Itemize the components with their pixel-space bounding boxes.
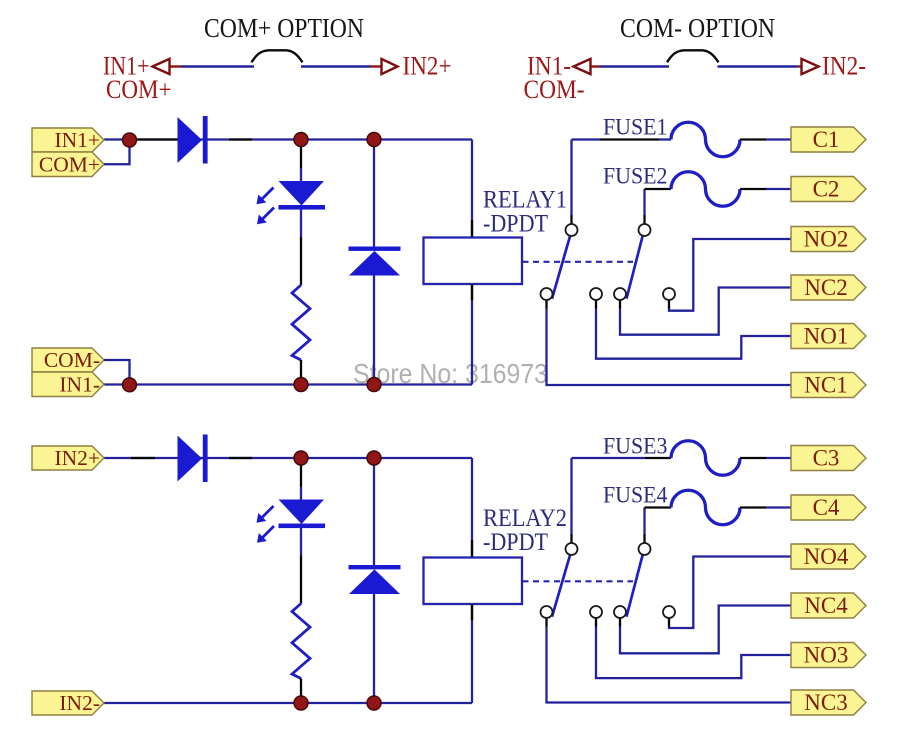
wire relay2 coil top riser: [471, 458, 473, 558]
wire pole2 riser to fuse line (relay1): [643, 189, 645, 215]
arrow to IN2-: [802, 59, 819, 74]
terminal NC1: [791, 373, 866, 398]
svg-text:C2: C2: [813, 176, 840, 201]
contact NC1 circle: [541, 288, 553, 300]
LED1 light arrows: [262, 188, 274, 200]
wire black pole1 pin: [570, 534, 572, 543]
switch pole1 common contact (relay1): [566, 224, 578, 236]
svg-text:NC3: NC3: [804, 690, 847, 715]
svg-text:RELAY2: RELAY2: [483, 505, 567, 532]
terminal NO3: [791, 643, 866, 668]
svg-text:NO4: NO4: [804, 544, 849, 569]
wire black pole2 pin: [643, 534, 645, 543]
wire black net segment after D1 cathode: [229, 138, 252, 140]
node COM-/IN1- junction: [123, 378, 137, 392]
switch arm relay2 pole1: [552, 554, 571, 617]
resistor R1: [292, 285, 310, 360]
wire zener Z1 cathode riser: [373, 146, 375, 247]
svg-text:NC1: NC1: [804, 372, 847, 397]
wire COM- down to IN1- node: [104, 360, 130, 378]
wire com+ option right stub: [370, 65, 382, 67]
svg-text:FUSE1: FUSE1: [603, 115, 668, 140]
wire black relay1 coil top pin: [471, 220, 473, 238]
wire IN2+ input net horizontal: [104, 457, 472, 459]
terminal C2: [791, 177, 866, 202]
wire contact to NC2: [620, 288, 791, 335]
node IN1+/COM+ junction: [123, 133, 137, 147]
LED LED1: [279, 181, 325, 206]
wire black pole1 pin: [570, 215, 572, 224]
contact NC3 circle: [541, 606, 553, 618]
wire black FUSE4 to C4: [740, 506, 766, 508]
wire fuse line FUSE4: [645, 506, 672, 508]
terminal IN1-: [32, 372, 104, 397]
svg-text:FUSE2: FUSE2: [603, 164, 668, 189]
wire black resistor R2 top pin: [300, 556, 302, 604]
wire black resistor R2 bottom pin: [300, 679, 302, 698]
wire contact to NO4: [669, 557, 791, 629]
fuse FUSE4: [671, 490, 740, 525]
contact NC4 circle: [614, 606, 626, 618]
terminal IN1+: [32, 128, 104, 152]
terminal C1: [791, 127, 866, 152]
wire com- option right stub: [798, 65, 803, 67]
node zener Z2 top: [367, 451, 381, 465]
terminal NC4: [791, 593, 866, 618]
switch pole1 common contact (relay2): [566, 543, 578, 555]
terminal C3: [791, 446, 866, 471]
wire com- option right: [718, 65, 798, 67]
svg-text:-DPDT: -DPDT: [483, 529, 548, 556]
resistor R2: [292, 604, 310, 679]
svg-text:IN2+: IN2+: [54, 446, 100, 470]
jumper link com+ option: [252, 50, 303, 62]
wire LED2 anode: [300, 487, 302, 500]
wire ground rail half2: [104, 702, 472, 704]
wire com+ option left: [181, 65, 254, 67]
switch pole2 common contact (relay1): [639, 224, 651, 236]
fuse FUSE2: [671, 172, 740, 207]
wire com- option left: [600, 65, 669, 67]
wire pole1 riser to fuse line (relay1): [570, 140, 572, 216]
fuse FUSE1: [671, 122, 740, 157]
wire black resistor R1 bottom pin: [300, 360, 302, 379]
wire black FUSE2 to C2: [740, 188, 766, 190]
wire black contact pin x=669: [668, 618, 670, 627]
LED2 light arrows: [262, 506, 274, 518]
fuse FUSE3: [671, 441, 740, 476]
wire pole2 riser to fuse line (relay2): [643, 508, 645, 535]
zener diode Z2: [349, 565, 401, 569]
svg-text:COM+ OPTION: COM+ OPTION: [204, 12, 364, 43]
svg-text:IN1-: IN1-: [59, 372, 100, 396]
terminal IN2+: [32, 446, 104, 470]
switch arm relay1 pole1: [552, 235, 571, 299]
relay U1 RELAY1-DPDT coil box: [424, 238, 523, 285]
wire LED1 cathode to resistor: [300, 210, 302, 238]
contact NO2 circle: [663, 288, 675, 300]
terminal NC3: [791, 690, 866, 715]
node zener Z2 bottom: [367, 696, 381, 710]
switch arm relay1 pole2: [627, 235, 644, 299]
wire black contact pin x=596: [595, 300, 597, 309]
svg-text:COM-: COM-: [524, 75, 585, 104]
contact NO3 circle: [590, 606, 602, 618]
wire contact to NC3: [547, 627, 792, 703]
node resistor R2 bottom: [294, 696, 308, 710]
wire black LED1 anode pin: [300, 147, 302, 169]
terminal COM-: [32, 348, 104, 372]
svg-text:RELAY1: RELAY1: [483, 187, 567, 214]
wire LED2 cathode to resistor: [300, 528, 302, 556]
wire black net segment after D2 cathode: [229, 457, 252, 459]
svg-text:FUSE3: FUSE3: [603, 434, 668, 459]
arrow to IN1-: [574, 59, 591, 74]
wire relay2 coil bottom to rail: [471, 604, 473, 703]
wire black relay2 coil bottom pin: [471, 604, 473, 621]
node LED1 branch top: [294, 133, 308, 147]
dashed actuator link relay1: [523, 261, 634, 263]
wire black contact pin x=669: [668, 300, 670, 309]
svg-text:C4: C4: [813, 495, 840, 520]
svg-text:IN2+: IN2+: [403, 52, 452, 81]
node LED2 branch top: [294, 451, 308, 465]
wire zener Z1 anode to rail: [373, 276, 375, 385]
svg-text:IN2-: IN2-: [59, 691, 100, 715]
svg-text:NO1: NO1: [804, 323, 849, 348]
wire black contact pin x=620: [619, 300, 621, 309]
wire black contact pin x=596: [595, 618, 597, 627]
svg-text:NC4: NC4: [804, 593, 848, 618]
wire black pin segment before D2 anode: [131, 457, 155, 459]
contact NO4 circle: [663, 606, 675, 618]
svg-text:NO3: NO3: [804, 642, 849, 667]
wire relay1 coil bottom to rail: [471, 284, 473, 385]
switch pole2 common contact (relay2): [639, 543, 651, 555]
svg-text:IN2-: IN2-: [822, 52, 866, 81]
wire fuse line FUSE3: [572, 457, 646, 459]
jumper link com- option: [667, 50, 719, 62]
wire pole1 riser to fuse line (relay2): [570, 458, 572, 534]
wire fuse line FUSE2: [645, 188, 672, 190]
svg-text:COM+: COM+: [39, 152, 100, 176]
node zener Z1 top: [367, 133, 381, 147]
wire com- option left stub: [591, 65, 601, 67]
wire black relay1 coil bottom pin: [471, 284, 473, 301]
wire com+ option left stub: [170, 65, 182, 67]
terminal NC2: [791, 275, 866, 300]
terminal NO2: [791, 227, 866, 252]
arrow to IN1+: [153, 59, 170, 74]
terminal COM+: [32, 152, 104, 177]
wire fuse line FUSE1: [572, 138, 601, 140]
wire black pin segment dot to D1 anode: [136, 138, 178, 140]
wire black contact pin x=546.5: [545, 618, 547, 627]
diode D1: [178, 117, 203, 163]
wire relay1 coil top riser: [471, 140, 473, 238]
wire contact to NO3: [596, 627, 791, 679]
wire black relay2 coil top pin: [471, 540, 473, 558]
wire black FUSE1 to C1: [740, 138, 766, 140]
terminal IN2-: [32, 691, 104, 715]
wire zener Z2 anode to rail: [373, 594, 375, 703]
wire contact to NO2: [669, 239, 791, 311]
wire black contact pin x=620: [619, 618, 621, 627]
wire black FUSE3 to C3: [740, 457, 766, 459]
wire black LED2 anode pin: [300, 465, 302, 487]
wire IN1+ input net horizontal: [104, 138, 472, 140]
dashed actuator link relay2: [523, 580, 634, 582]
contact NC2 circle: [614, 288, 626, 300]
svg-text:FUSE4: FUSE4: [603, 483, 668, 508]
svg-text:NO2: NO2: [804, 226, 849, 251]
svg-text:C1: C1: [813, 127, 840, 152]
contact NO1 circle: [590, 288, 602, 300]
svg-text:-DPDT: -DPDT: [483, 211, 548, 238]
svg-text:C3: C3: [813, 445, 840, 470]
terminal NO4: [791, 544, 866, 569]
terminal NO1: [791, 324, 866, 349]
wire black pole2 pin: [643, 215, 645, 224]
svg-text:NC2: NC2: [804, 275, 847, 300]
wire com+ option right: [301, 65, 370, 67]
switch arm relay2 pole2: [627, 554, 644, 617]
wire COM+ up to IN1+ node: [104, 146, 130, 164]
node zener Z1 bottom: [367, 378, 381, 392]
zener diode Z1: [349, 247, 401, 251]
wire zener Z2 cathode riser: [373, 464, 375, 565]
terminal C4: [791, 495, 866, 520]
wire black resistor R1 top pin: [300, 237, 302, 285]
wire contact to NO1: [596, 309, 791, 359]
wire LED1 anode: [300, 168, 302, 181]
LED LED2: [279, 500, 325, 525]
svg-text:COM-: COM-: [44, 348, 100, 372]
wire ground rail half1: [104, 383, 472, 385]
wire contact to NC1: [547, 309, 792, 386]
wire contact to NC4: [620, 606, 791, 654]
relay U2 RELAY2-DPDT coil box: [424, 558, 523, 605]
diode D2: [178, 436, 203, 482]
arrow to IN2+: [382, 59, 398, 74]
svg-text:COM- OPTION: COM- OPTION: [620, 12, 775, 43]
svg-text:COM+: COM+: [106, 75, 172, 104]
node resistor R1 bottom: [294, 378, 308, 392]
wire black contact pin x=546.5: [545, 300, 547, 309]
svg-text:IN1+: IN1+: [54, 128, 100, 152]
